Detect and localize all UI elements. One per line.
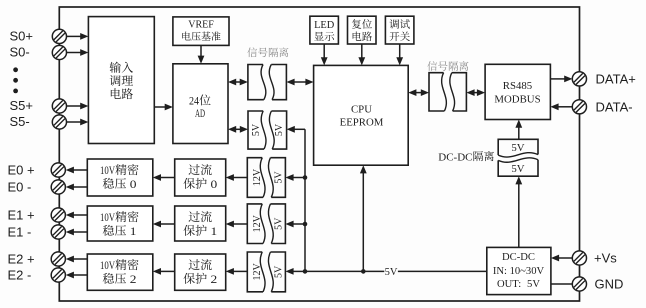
svg-text:5V: 5V [274,265,285,278]
svg-text:24: 24 [189,96,199,108]
svg-text:12V: 12V [252,263,263,281]
svg-text:2: 2 [126,274,136,286]
svg-text:5V: 5V [274,123,285,136]
svg-text:5V: 5V [511,163,524,175]
svg-text:E0 +: E0 + [8,163,35,178]
svg-text:DC-DC: DC-DC [502,252,535,263]
svg-text:E1 +: E1 + [8,208,35,223]
svg-text:S5-: S5- [10,114,30,129]
svg-text:S5+: S5+ [10,98,34,113]
svg-text:0: 0 [207,179,217,191]
svg-text:CPU: CPU [351,103,372,115]
svg-text:DATA+: DATA+ [596,72,636,87]
svg-text:E2 +: E2 + [8,252,35,267]
svg-text:10V: 10V [100,165,116,177]
svg-text:5V: 5V [527,279,540,290]
svg-text:2: 2 [207,274,217,286]
svg-text:+Vs: +Vs [594,251,617,266]
svg-text:5V: 5V [385,267,398,278]
svg-text:LED: LED [314,20,335,31]
svg-text:DC-DC: DC-DC [438,151,472,163]
svg-text:E2 -: E2 - [8,268,32,283]
svg-text:E0 -: E0 - [8,180,32,195]
svg-text:0: 0 [126,179,136,191]
svg-text:5V: 5V [251,123,262,136]
svg-text:10V: 10V [100,212,116,224]
svg-text:AD: AD [195,108,205,120]
svg-text:S0-: S0- [10,45,30,60]
svg-text:IN: 10~30V: IN: 10~30V [493,266,545,277]
svg-text:5V: 5V [274,217,285,230]
svg-text:E1 -: E1 - [8,225,32,240]
svg-text:5V: 5V [511,142,524,154]
svg-text:EEPROM: EEPROM [340,116,384,128]
svg-text:5V: 5V [274,171,285,184]
svg-text:VREF: VREF [188,20,214,31]
svg-text:1: 1 [207,226,217,238]
svg-text:MODBUS: MODBUS [494,93,540,105]
svg-text:10V: 10V [100,260,116,272]
svg-text:OUT:: OUT: [497,279,521,290]
svg-text:12V: 12V [252,214,263,232]
svg-text:GND: GND [595,277,624,292]
svg-text:12V: 12V [252,168,263,186]
svg-text:1: 1 [126,226,136,238]
svg-text:S0+: S0+ [10,29,34,44]
svg-text:RS485: RS485 [503,80,532,92]
svg-text:DATA-: DATA- [596,99,633,114]
